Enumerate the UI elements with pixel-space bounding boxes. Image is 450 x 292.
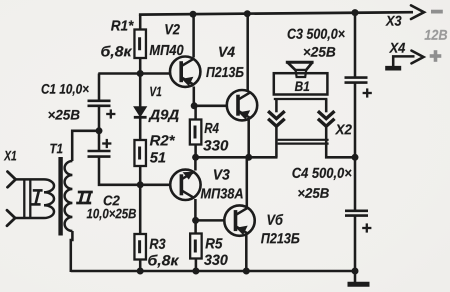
capacitor C1 plates xyxy=(88,100,111,103)
label C1 polarity + xyxy=(106,109,115,118)
transformer T1 secondary winding II xyxy=(65,161,73,231)
label T1 xyxy=(50,144,62,153)
wire V1 to R2 xyxy=(139,117,142,140)
label C1 voltage xyxy=(48,110,79,120)
diode V1 xyxy=(134,107,147,118)
wire V3 collector up to output node xyxy=(194,157,197,170)
label B1 xyxy=(295,82,309,91)
label R2* xyxy=(150,135,175,145)
label R5 xyxy=(205,238,222,248)
connector X1 lower arrow xyxy=(7,210,15,226)
wire R4 bottom to output node xyxy=(194,145,197,159)
label R4 xyxy=(205,123,219,133)
wire V5 emitter to ground rail xyxy=(245,235,248,271)
label winding I roman numeral xyxy=(31,190,43,204)
label R4 value 330 xyxy=(203,140,228,150)
ground bar xyxy=(348,282,370,287)
connector X4 arrow xyxy=(412,51,424,64)
transformer T1 core xyxy=(58,157,62,236)
wire R4 top xyxy=(194,106,197,120)
node bottom rail/right rail xyxy=(352,268,359,275)
label V2 xyxy=(165,24,179,34)
wire C2 bottom to V3 base node xyxy=(99,157,171,185)
capacitor C2 plates xyxy=(88,150,111,153)
wire node to R5 xyxy=(194,220,197,233)
label 12V xyxy=(425,30,448,40)
label C2 value xyxy=(87,209,136,221)
node V2/R4/V4-base xyxy=(191,102,198,109)
wire node to V4 base xyxy=(194,105,227,108)
node top rail / right rail xyxy=(352,9,359,16)
label X4 xyxy=(389,43,405,53)
label C2 name xyxy=(104,196,120,206)
connector X2 left arrows xyxy=(268,111,285,119)
wire bottom ground rail xyxy=(71,270,355,273)
node R4/V3 collector xyxy=(192,154,199,161)
transistor V4 P213B body xyxy=(227,90,257,120)
wire to transformer secondary xyxy=(72,131,99,161)
connector X2 socket double line xyxy=(278,139,329,141)
node V3 emitter/R5/V5 base xyxy=(192,217,199,224)
label C4 voltage xyxy=(298,188,329,198)
wire R2 bottom to node xyxy=(139,166,142,185)
wire R1 bottom to node xyxy=(139,58,142,75)
wire R5 bottom to ground rail xyxy=(195,259,198,272)
label V4 type P213B xyxy=(206,67,243,77)
node top rail / V4 collector xyxy=(244,10,251,17)
wire V4 collector to top rail xyxy=(246,14,249,91)
wire V5 collector up to output node xyxy=(246,157,249,206)
wire secondary bottom to ground rail xyxy=(71,231,73,272)
label R3 xyxy=(150,239,166,249)
connector X4 lead xyxy=(393,56,414,66)
label winding II roman numeral xyxy=(76,192,93,203)
wire output node left segment xyxy=(196,156,278,159)
label V1 type D9D xyxy=(148,110,178,122)
ground stub xyxy=(354,271,357,283)
wire speaker left lead xyxy=(275,99,278,112)
label X1 xyxy=(4,151,16,160)
transistor V3 MP38A body xyxy=(170,170,200,200)
label X3 xyxy=(385,16,401,26)
speaker B1 coil box xyxy=(296,70,307,77)
label R2 value 51 xyxy=(150,152,165,162)
label C3 name xyxy=(288,29,345,41)
connector X2 right arrows xyxy=(318,111,335,119)
wire V2 emitter down to node xyxy=(193,87,196,107)
node output/right rail xyxy=(352,154,359,161)
wire R1 top xyxy=(139,15,142,30)
label V2 type MP40 xyxy=(150,45,184,55)
label R1* xyxy=(111,20,134,30)
label C3 polarity + xyxy=(363,88,372,97)
resistor R1 body xyxy=(134,30,146,59)
wire right rail mid segment xyxy=(354,83,357,211)
wire C1 top lead xyxy=(98,74,101,102)
label R3 value 6,8k xyxy=(148,255,179,268)
wire V2 collector to top rail xyxy=(192,14,195,57)
node V5 emitter/bottom rail xyxy=(243,268,250,275)
wire node to R3 xyxy=(139,185,142,234)
speaker B1 body box xyxy=(274,73,328,94)
label plus terminal xyxy=(430,50,442,62)
label C4 name xyxy=(292,168,351,180)
resistor R2 body xyxy=(134,140,146,166)
label C4 polarity + xyxy=(362,223,371,232)
speaker B1 horn xyxy=(286,61,314,64)
label C2 polarity + xyxy=(102,139,111,148)
wire V3 emitter down to node xyxy=(194,199,197,220)
wire top supply rail xyxy=(139,12,413,14)
wire V4 emitter to output node xyxy=(247,120,250,158)
wire C1 to C2 xyxy=(98,106,101,152)
node top rail / V2 collector xyxy=(190,11,197,18)
label V5 type P213B xyxy=(261,233,299,243)
wire right rail bottom segment xyxy=(354,216,357,271)
node R1/V1/V2-base junction xyxy=(137,70,144,77)
label C3 voltage xyxy=(304,47,336,57)
label V4 xyxy=(219,47,235,57)
node C1/C2/transformer junction xyxy=(96,127,103,134)
transistor V5 P213B body xyxy=(224,205,254,235)
speaker box inner bottom line xyxy=(274,98,328,100)
node R5/bottom rail xyxy=(192,268,199,275)
capacitor C3 plates xyxy=(345,76,368,79)
wire V5 base from node xyxy=(196,219,225,222)
node R2 bottom / V3 base xyxy=(137,181,144,188)
connector X3 arrow xyxy=(411,5,424,19)
label V3 type MP38A xyxy=(201,188,243,198)
label V5 xyxy=(268,214,284,225)
resistor R5 body xyxy=(190,234,202,259)
capacitor C4 plates xyxy=(345,210,368,213)
connector X4 terminal bar xyxy=(385,66,401,71)
wire speaker left lead lower xyxy=(275,126,278,157)
wire speaker right lead lower xyxy=(326,126,355,157)
label R1 value 6,8k xyxy=(101,46,132,59)
label minus terminal xyxy=(431,10,443,14)
connector X1 upper arrow xyxy=(8,172,16,188)
resistor R3 body xyxy=(134,234,146,260)
label X2 xyxy=(335,124,352,134)
node V4 emitter/V5 collector xyxy=(245,154,252,161)
wire right rail top segment xyxy=(354,13,357,78)
resistor R4 body xyxy=(190,120,202,145)
transistor V2 MP40 body xyxy=(170,56,200,86)
label V3 xyxy=(214,169,230,179)
label R5 value 330 xyxy=(204,255,228,265)
wire V1 top xyxy=(139,74,142,108)
node R3/bottom rail xyxy=(137,268,144,275)
wire speaker right lead xyxy=(325,99,328,112)
transformer T1 primary winding I xyxy=(15,178,44,181)
wire node to V2 base xyxy=(98,72,170,75)
label V1 xyxy=(150,87,161,96)
wire R3 bottom to ground rail xyxy=(139,260,142,272)
label C1 name xyxy=(42,84,89,96)
